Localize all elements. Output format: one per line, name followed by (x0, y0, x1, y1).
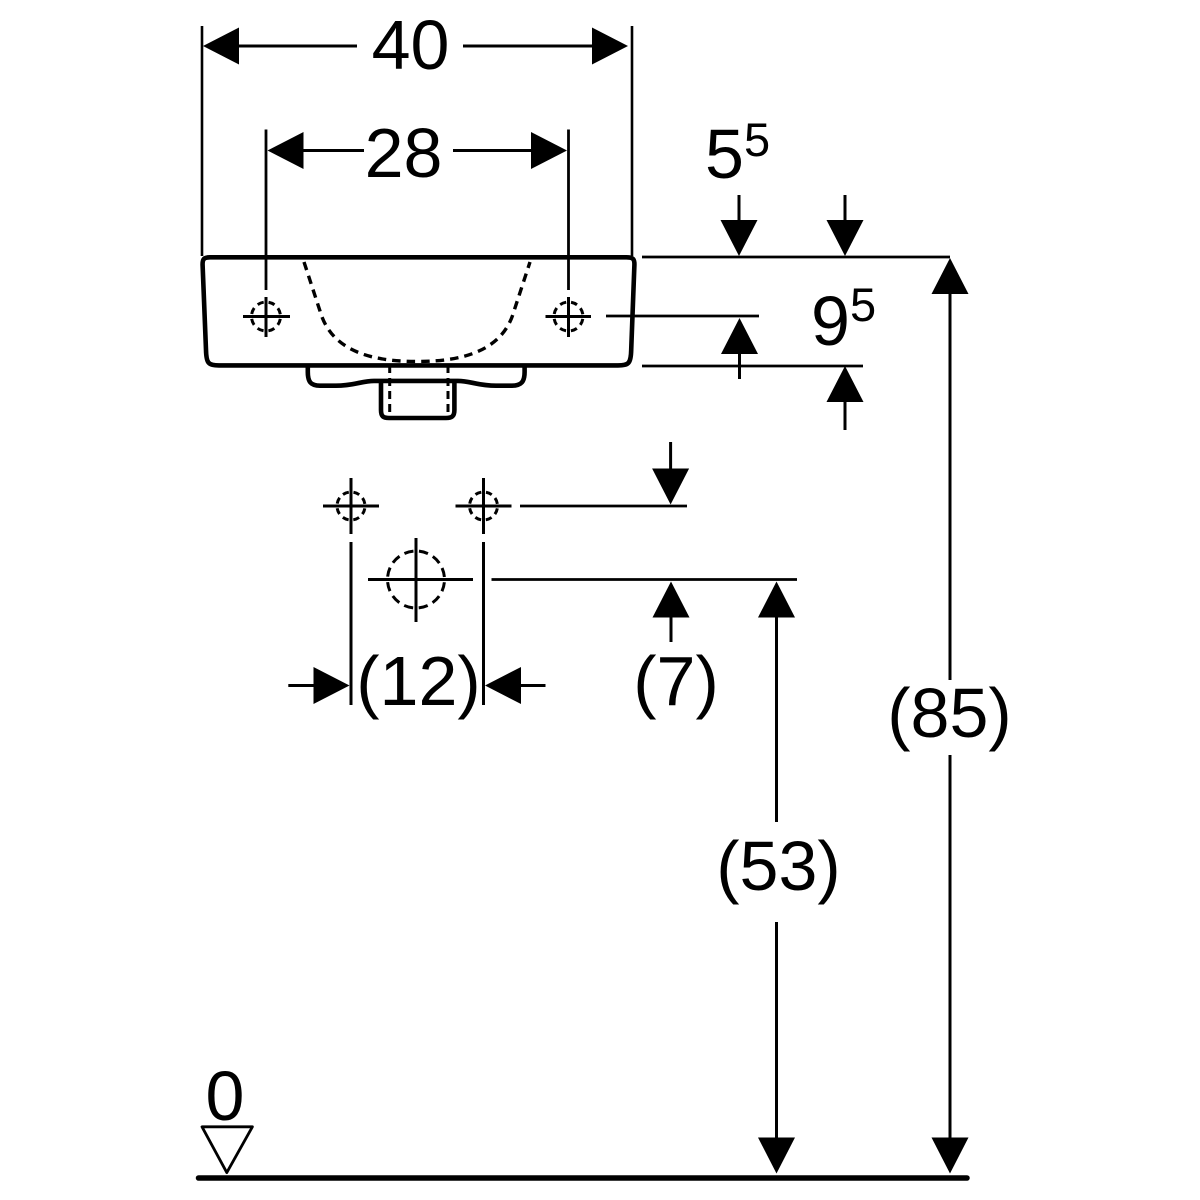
dimension 28 extension line right (567, 130, 570, 291)
dimension 28 arrow right (453, 132, 567, 169)
drain box (381, 381, 454, 418)
dimension 7 upper arrow (652, 442, 689, 505)
floor baseline (199, 1175, 968, 1181)
datum triangle (202, 1127, 252, 1173)
dimension 28 extension line left (265, 130, 268, 291)
dimension 5.5 upper arrow (721, 195, 758, 256)
mixer hole (368, 538, 473, 622)
dimension 53 upper arrow (758, 582, 795, 823)
dimension 12 extension line right (482, 542, 485, 705)
dimension 85 lower arrow (932, 755, 969, 1174)
top edge reference line (642, 256, 950, 259)
dimension 28 arrow left (268, 132, 365, 169)
washbasin outline (203, 257, 635, 365)
svg-text:(85): (85) (887, 674, 1011, 752)
left tap hole (243, 297, 290, 337)
right tap hole (546, 297, 592, 337)
dimension 5.5 lower arrow (721, 318, 758, 379)
bottom edge reference line (642, 365, 863, 368)
svg-text:(53): (53) (716, 827, 840, 905)
left fixing hole (323, 478, 379, 534)
basin bowl hidden contour (304, 262, 530, 362)
tap hole axis reference line (606, 315, 759, 318)
svg-text:40: 40 (372, 6, 450, 84)
dimension 85 upper arrow (932, 258, 969, 680)
dimension 7 lower arrow (653, 582, 690, 643)
dimension 53 lower arrow (758, 922, 795, 1174)
dimension 12 arrow left (288, 667, 349, 704)
dimension 9.5 lower arrow (827, 366, 864, 430)
drain hidden line left (388, 365, 391, 415)
dimension 40 arrow right (463, 28, 628, 65)
svg-text:0: 0 (206, 1057, 245, 1135)
dimension 12 arrow right (485, 667, 546, 704)
dimension 12 extension line left (350, 542, 353, 705)
svg-text:28: 28 (365, 114, 443, 192)
svg-text:(12): (12) (356, 642, 480, 720)
mixer hole axis reference line (492, 578, 798, 581)
right fixing hole (456, 478, 512, 534)
dimension 40 extension line right (631, 26, 634, 256)
dimension 9.5 upper arrow (827, 195, 864, 256)
dimension 40 arrow left (203, 28, 357, 65)
fixing hole axis reference line (520, 505, 687, 508)
waste cover tab (308, 365, 525, 386)
svg-text:(7): (7) (633, 642, 719, 720)
drain hidden line right (447, 365, 450, 415)
dimension 40 extension line left (201, 26, 204, 256)
